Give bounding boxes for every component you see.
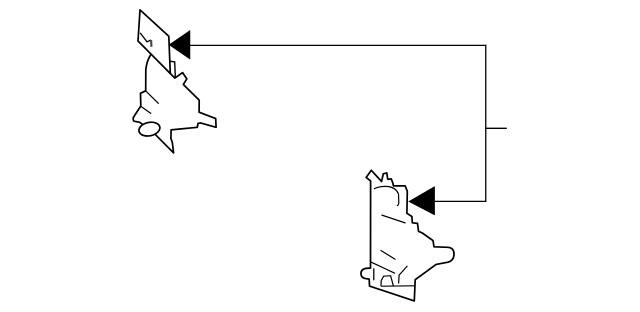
- arrow 1: [169, 30, 190, 59]
- plate leader mark: [140, 33, 151, 42]
- bracket 2 hat bump: [381, 276, 393, 286]
- numeral 1 stem on plate: [150, 40, 152, 47]
- bracket 1 mounting plate: [138, 10, 170, 74]
- bracket 2 top interior curve: [374, 186, 399, 205]
- bracket part 2 body outline: [361, 170, 454, 301]
- arrow 2: [409, 187, 435, 216]
- leader line right vertical: [485, 45, 487, 202]
- leader line top horizontal: [190, 44, 486, 46]
- bracket part 1 body outline: [133, 54, 216, 153]
- bracket 2 interior diagonal lower: [381, 250, 396, 259]
- bracket 2 interior Y stroke: [399, 266, 408, 284]
- bracket 1 interior ridge line lower: [141, 107, 151, 114]
- bracket 2 bottom interior line: [381, 285, 414, 287]
- bracket 1 grommet blob: [138, 120, 162, 138]
- bracket 2 interior diagonal upper: [382, 215, 406, 223]
- tick mark on vertical leader: [486, 127, 507, 129]
- leader line bottom horizontal: [435, 200, 487, 202]
- plate side flap: [170, 61, 176, 78]
- bracket 2 interior fold line: [371, 262, 395, 273]
- bracket 2 inner tab line: [373, 268, 375, 280]
- bracket 1 interior ridge line upper: [146, 91, 159, 104]
